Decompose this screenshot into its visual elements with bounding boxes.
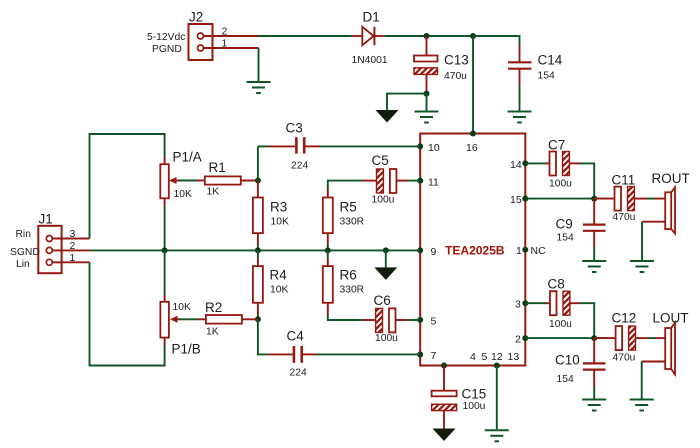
svg-text:1: 1 bbox=[222, 38, 228, 50]
ground (ROUT) bbox=[630, 261, 654, 272]
connector J1 bbox=[10, 212, 90, 274]
wire C7 to C11 junction bbox=[580, 163, 594, 198]
wire rail to SGND triangle bbox=[385, 250, 387, 267]
ground (LOUT) bbox=[630, 400, 654, 411]
node junction at C13 tap bbox=[424, 33, 430, 39]
wire R6 bottom to C6 bbox=[328, 314, 363, 320]
svg-text:2: 2 bbox=[222, 26, 228, 38]
svg-text:470u: 470u bbox=[444, 71, 467, 82]
svg-text:100u: 100u bbox=[549, 319, 572, 330]
pin 3 bbox=[515, 299, 528, 311]
wire R4 bottom to R2 junction bbox=[257, 314, 259, 319]
svg-text:7: 7 bbox=[431, 350, 437, 362]
wire J1 pin3 to P1/A top bbox=[90, 134, 165, 239]
capacitor C9 bbox=[556, 199, 606, 260]
svg-text:J2: J2 bbox=[189, 10, 203, 25]
ground (J2) bbox=[247, 82, 271, 93]
svg-text:SGND: SGND bbox=[10, 247, 40, 258]
svg-text:C8: C8 bbox=[548, 277, 565, 292]
pin 7 bbox=[417, 350, 436, 362]
wire ROUT to ground bbox=[642, 222, 665, 260]
wire R5 top to C5 bbox=[328, 181, 363, 190]
svg-text:1K: 1K bbox=[207, 186, 220, 197]
pin 5 bbox=[417, 315, 436, 327]
capacitor C8 bbox=[525, 277, 580, 330]
svg-text:Lin: Lin bbox=[16, 259, 30, 270]
svg-text:R3: R3 bbox=[270, 200, 287, 215]
svg-text:154: 154 bbox=[538, 71, 555, 82]
pin 2 bbox=[515, 334, 528, 346]
svg-text:15: 15 bbox=[510, 194, 522, 206]
svg-text:C4: C4 bbox=[287, 329, 305, 344]
svg-text:R5: R5 bbox=[340, 200, 357, 215]
ground (C13) bbox=[415, 112, 439, 123]
node junction rail R5/R6 bbox=[325, 247, 331, 253]
svg-text:13: 13 bbox=[508, 351, 520, 363]
wire C13 to PGND triangle bbox=[387, 94, 427, 110]
pin 16 bbox=[466, 131, 478, 155]
wire C3 to IC pin 10 bbox=[319, 145, 420, 147]
svg-text:1N4001: 1N4001 bbox=[352, 55, 388, 66]
ground (C14) bbox=[508, 112, 532, 123]
op-amp U1 TEA2025B bbox=[420, 134, 525, 366]
pin 14 bbox=[510, 159, 528, 171]
svg-text:C5: C5 bbox=[372, 153, 389, 168]
node junction rail R3/R4 bbox=[255, 247, 261, 253]
node junction C10/C12 bbox=[591, 335, 597, 341]
capacitor C3 bbox=[258, 121, 320, 172]
node junction below C13 bbox=[424, 91, 430, 97]
svg-text:330R: 330R bbox=[340, 216, 365, 227]
svg-text:C10: C10 bbox=[555, 353, 580, 368]
wire R2 junction down to C4 line bbox=[258, 319, 269, 354]
pin 10 bbox=[417, 142, 440, 154]
capacitor C13 bbox=[414, 36, 469, 94]
potentiometer P1/A bbox=[160, 150, 205, 207]
svg-text:100u: 100u bbox=[463, 401, 486, 412]
speaker ROUT bbox=[652, 171, 690, 234]
wire R5 bottom to rail bbox=[327, 244, 329, 250]
pin 11 bbox=[417, 176, 439, 188]
wire P1/B bottom loop to J1 pin1 bbox=[90, 262, 165, 365]
svg-text:NC: NC bbox=[531, 245, 547, 257]
wire P1/A bottom to SGND rail bbox=[164, 206, 166, 251]
pin 9 bbox=[417, 246, 436, 258]
svg-text:4: 4 bbox=[470, 351, 476, 363]
wire C4 to IC pin 7 bbox=[317, 353, 420, 355]
svg-text:D1: D1 bbox=[363, 10, 380, 25]
capacitor C6 bbox=[362, 293, 409, 344]
pgnd triangle (C15) bbox=[433, 429, 456, 442]
connector J2 bbox=[147, 10, 259, 61]
wire J2 pin2 to D1 bbox=[259, 35, 352, 37]
node junction R1/R3 bbox=[255, 178, 261, 184]
svg-text:11: 11 bbox=[428, 176, 439, 188]
svg-text:R2: R2 bbox=[205, 300, 222, 315]
ground (IC bottom) bbox=[485, 430, 509, 441]
svg-text:J1: J1 bbox=[39, 212, 53, 227]
capacitor C5 bbox=[362, 153, 409, 205]
ground (C9) bbox=[582, 261, 606, 272]
node junction C9/C11 bbox=[591, 196, 597, 202]
resistor R5 bbox=[323, 189, 364, 245]
resistor R1 bbox=[205, 160, 258, 197]
capacitor C4 bbox=[268, 329, 317, 379]
wire D1 to C14 corner bbox=[384, 35, 519, 37]
svg-text:C13: C13 bbox=[444, 53, 469, 68]
svg-text:10K: 10K bbox=[174, 189, 192, 200]
svg-text:C14: C14 bbox=[538, 53, 563, 68]
svg-text:C7: C7 bbox=[548, 138, 565, 153]
sgnd triangle (rail) bbox=[374, 267, 397, 280]
svg-text:330R: 330R bbox=[340, 285, 365, 296]
wire IC pin 15 to C11 bbox=[525, 198, 606, 200]
wire C6 to IC pin 5 bbox=[408, 319, 420, 321]
svg-text:100u: 100u bbox=[549, 178, 572, 189]
wire rail to P1/B top bbox=[164, 250, 166, 295]
svg-text:154: 154 bbox=[557, 232, 574, 243]
svg-text:2: 2 bbox=[70, 240, 76, 252]
wire C13 to ground bbox=[426, 94, 428, 111]
wire C3 line corner down to R1 junction bbox=[257, 146, 259, 180]
svg-text:C3: C3 bbox=[286, 121, 303, 136]
svg-text:14: 14 bbox=[510, 159, 522, 171]
svg-text:224: 224 bbox=[290, 368, 307, 379]
capacitor C15 bbox=[432, 366, 487, 430]
svg-text:5: 5 bbox=[482, 351, 488, 363]
svg-text:3: 3 bbox=[515, 299, 521, 311]
capacitor C14 bbox=[473, 36, 563, 111]
capacitor C11 bbox=[594, 173, 665, 224]
svg-text:10K: 10K bbox=[270, 285, 288, 296]
pin 1 NC bbox=[516, 245, 546, 257]
speaker LOUT bbox=[653, 311, 689, 375]
wire to IC pin 16 bbox=[472, 36, 474, 134]
resistor R3 bbox=[253, 181, 289, 245]
resistor R6 bbox=[323, 250, 364, 314]
svg-text:5-12Vdc: 5-12Vdc bbox=[147, 32, 185, 43]
svg-text:1K: 1K bbox=[206, 326, 219, 337]
svg-text:10K: 10K bbox=[271, 216, 289, 227]
resistor R4 bbox=[253, 250, 289, 314]
svg-text:C12: C12 bbox=[612, 311, 637, 326]
capacitor C7 bbox=[525, 138, 580, 190]
svg-text:154: 154 bbox=[557, 374, 574, 385]
node junction at pin16 tap bbox=[470, 33, 476, 39]
svg-text:P1/A: P1/A bbox=[173, 150, 202, 165]
node junction R2/R4 bbox=[255, 316, 261, 322]
wire IC pin 2 to C12 bbox=[525, 337, 607, 339]
svg-text:100u: 100u bbox=[375, 333, 398, 344]
ground (C10) bbox=[582, 400, 606, 411]
wire C5 to IC pin 11 bbox=[408, 180, 420, 182]
pin 15 bbox=[510, 194, 528, 206]
svg-text:C11: C11 bbox=[612, 173, 636, 188]
potentiometer P1/B bbox=[160, 295, 200, 357]
svg-text:16: 16 bbox=[466, 142, 478, 154]
svg-text:R4: R4 bbox=[270, 268, 288, 283]
pgnd triangle (C13) bbox=[376, 110, 399, 123]
svg-text:PGND: PGND bbox=[152, 44, 182, 55]
svg-text:C9: C9 bbox=[556, 217, 573, 232]
svg-text:R1: R1 bbox=[209, 160, 226, 175]
svg-text:100u: 100u bbox=[372, 194, 395, 205]
wire C8 to C12 junction bbox=[580, 303, 594, 338]
wire IC pin 12 to ground bbox=[496, 366, 498, 430]
svg-text:1: 1 bbox=[70, 252, 76, 264]
svg-text:10: 10 bbox=[428, 142, 440, 154]
wire R3 bottom to rail bbox=[257, 244, 259, 250]
node junction rail SGND tap bbox=[383, 247, 389, 253]
svg-text:C6: C6 bbox=[374, 293, 391, 308]
svg-text:ROUT: ROUT bbox=[652, 171, 690, 186]
svg-text:470u: 470u bbox=[613, 212, 636, 223]
wire SGND rail bbox=[90, 249, 421, 251]
svg-text:LOUT: LOUT bbox=[653, 311, 689, 326]
svg-text:TEA2025B: TEA2025B bbox=[445, 244, 505, 258]
svg-text:P1/B: P1/B bbox=[172, 342, 201, 357]
wire J2 pin1 to ground bbox=[258, 48, 260, 81]
svg-text:R6: R6 bbox=[340, 268, 357, 283]
svg-text:224: 224 bbox=[291, 161, 308, 172]
svg-text:Rin: Rin bbox=[16, 229, 32, 240]
node junction rail P1/A bbox=[162, 247, 168, 253]
svg-text:2: 2 bbox=[515, 334, 521, 346]
svg-text:470u: 470u bbox=[613, 353, 636, 364]
wire LOUT to ground bbox=[642, 362, 666, 399]
diode D1 bbox=[352, 10, 388, 66]
svg-text:12: 12 bbox=[491, 351, 503, 363]
resistor R2 bbox=[170, 300, 258, 337]
svg-text:C15: C15 bbox=[462, 387, 487, 402]
svg-text:1: 1 bbox=[516, 245, 522, 257]
capacitor C12 bbox=[594, 311, 665, 364]
svg-text:9: 9 bbox=[431, 246, 437, 258]
pins 4 5 12 13 bbox=[441, 351, 519, 369]
svg-text:3: 3 bbox=[70, 228, 76, 240]
svg-text:10K: 10K bbox=[173, 302, 191, 313]
svg-text:5: 5 bbox=[431, 315, 437, 327]
capacitor C10 bbox=[555, 338, 606, 398]
